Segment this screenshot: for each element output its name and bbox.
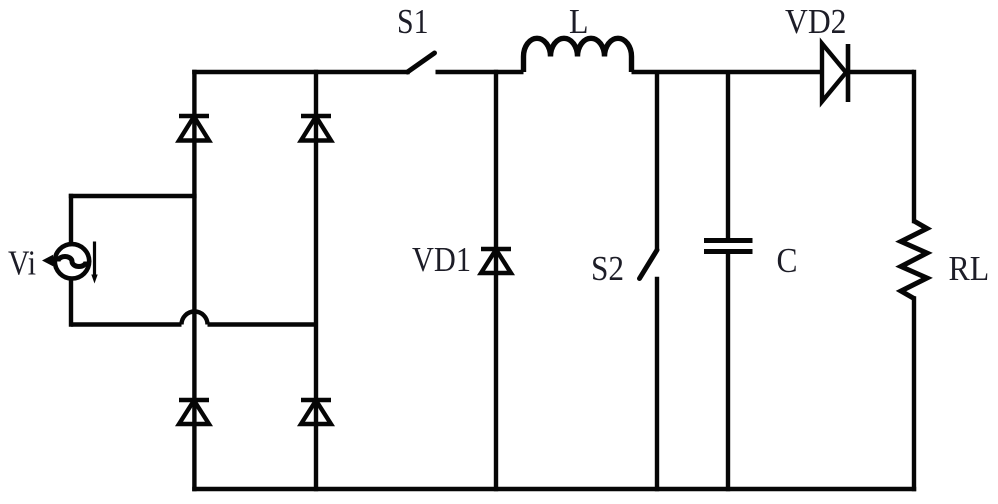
wire Vi top lead — [71, 194, 194, 198]
svg-text:VD1: VD1 — [412, 240, 471, 279]
wire top rail L to VD2 — [632, 70, 823, 74]
wire Vi bottom lead left part — [71, 322, 182, 326]
resistor RL — [901, 221, 927, 299]
wire top rail left of S1 — [194, 70, 407, 74]
wire C column upper lead — [726, 72, 730, 238]
diode VD2 — [822, 44, 914, 103]
wire bottom rail — [194, 487, 914, 491]
switch S1 — [408, 53, 435, 72]
svg-text:C: C — [777, 241, 798, 280]
capacitor C — [704, 241, 753, 252]
svg-text:RL: RL — [949, 249, 990, 288]
switch S2 — [640, 250, 658, 279]
wire C column lower lead — [726, 254, 730, 489]
diode VD1 — [481, 249, 511, 273]
wire hop over left column — [182, 312, 208, 325]
svg-text:S1: S1 — [397, 2, 429, 41]
inductor L — [524, 38, 632, 72]
diode bridge bottom-right — [301, 400, 331, 424]
source Vi — [55, 244, 89, 278]
diode bridge top-right — [301, 116, 331, 141]
wire top rail S1 to L — [436, 70, 524, 74]
arrow pointer left of Vi source — [42, 255, 53, 266]
diode bridge bottom-left — [179, 400, 209, 424]
wire Vi bottom lead right part — [208, 322, 317, 326]
wire Vi left down to source — [69, 196, 73, 243]
wire RL to bottom-right corner — [912, 299, 916, 490]
arrow current direction beside Vi — [91, 242, 97, 284]
wire source to Vi bottom lead — [69, 280, 73, 325]
svg-text:S2: S2 — [591, 249, 624, 288]
wire bridge right column — [314, 72, 318, 489]
wire top-right corner down to RL — [912, 72, 916, 221]
wire VD1 column upper — [494, 72, 498, 489]
svg-text:VD2: VD2 — [785, 2, 847, 41]
diode bridge top-left — [179, 116, 209, 141]
wire S2 column lower lead — [655, 279, 659, 489]
wire S2 column upper lead — [655, 72, 659, 250]
svg-text:Vi: Vi — [8, 244, 36, 283]
wire bridge left column — [192, 72, 196, 489]
svg-text:L: L — [569, 2, 589, 41]
